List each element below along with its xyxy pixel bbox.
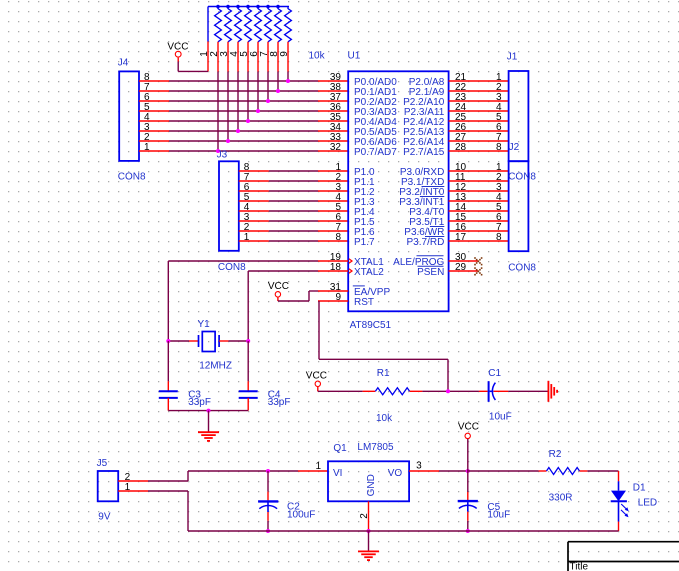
svg-text:Y1: Y1 (198, 319, 211, 330)
svg-text:CON8: CON8 (508, 172, 536, 183)
svg-text:P1.7: P1.7 (354, 237, 375, 248)
svg-text:9V: 9V (98, 512, 111, 523)
svg-text:VCC: VCC (268, 281, 289, 292)
svg-text:1: 1 (125, 482, 131, 493)
svg-text:J1: J1 (507, 52, 518, 63)
svg-text:12MHZ: 12MHZ (199, 360, 232, 371)
svg-text:LM7805: LM7805 (357, 442, 394, 453)
svg-text:PSEN: PSEN (417, 267, 444, 278)
svg-text:10uF: 10uF (487, 509, 510, 520)
svg-text:J3: J3 (217, 150, 228, 161)
svg-text:10uF: 10uF (489, 411, 512, 422)
svg-text:VCC: VCC (306, 370, 327, 381)
svg-text:8: 8 (335, 232, 341, 243)
svg-text:RST: RST (354, 297, 374, 308)
svg-text:32: 32 (330, 142, 342, 153)
svg-text:R1: R1 (377, 368, 390, 379)
svg-text:CON8: CON8 (508, 263, 536, 274)
svg-text:GND: GND (366, 474, 377, 496)
svg-text:P3.7/RD: P3.7/RD (407, 237, 445, 248)
svg-text:10k: 10k (309, 51, 326, 62)
svg-text:VCC: VCC (458, 422, 479, 433)
svg-text:VO: VO (388, 468, 403, 479)
svg-text:LED: LED (638, 498, 657, 509)
svg-text:AT89C51: AT89C51 (350, 320, 392, 331)
svg-text:Title: Title (570, 562, 589, 571)
svg-text:33pF: 33pF (268, 397, 291, 408)
svg-text:330R: 330R (549, 493, 573, 504)
svg-text:1: 1 (144, 142, 150, 153)
svg-text:Q1: Q1 (333, 443, 347, 454)
svg-text:P2.7/A15: P2.7/A15 (403, 147, 445, 158)
svg-text:C1: C1 (488, 368, 501, 379)
svg-text:33pF: 33pF (188, 397, 211, 408)
svg-text:CON8: CON8 (118, 172, 146, 183)
svg-text:3: 3 (416, 461, 422, 472)
svg-text:U1: U1 (348, 51, 361, 62)
svg-text:P0.7/AD7: P0.7/AD7 (354, 147, 397, 158)
svg-text:J4: J4 (118, 57, 129, 68)
svg-text:10k: 10k (376, 413, 393, 424)
svg-text:100uF: 100uF (287, 510, 315, 521)
svg-text:9: 9 (335, 292, 341, 303)
svg-text:8: 8 (496, 142, 502, 153)
svg-text:VCC: VCC (167, 41, 188, 52)
svg-text:18: 18 (330, 262, 342, 273)
svg-text:2: 2 (359, 513, 370, 519)
svg-text:1: 1 (315, 461, 321, 472)
svg-text:J5: J5 (97, 458, 108, 469)
svg-text:R2: R2 (549, 449, 562, 460)
svg-text:1: 1 (244, 232, 250, 243)
svg-text:VI: VI (333, 468, 342, 479)
svg-text:CON8: CON8 (218, 262, 246, 273)
svg-text:J2: J2 (509, 142, 520, 153)
svg-text:9: 9 (279, 51, 290, 57)
svg-text:XTAL2: XTAL2 (354, 267, 384, 278)
svg-text:8: 8 (496, 232, 502, 243)
svg-text:D1: D1 (633, 483, 646, 494)
